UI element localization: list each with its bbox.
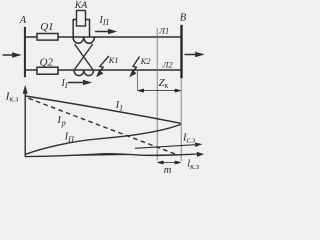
incoming arrow	[3, 53, 20, 57]
bus A	[24, 27, 26, 78]
zone boundary vertical line	[156, 28, 158, 161]
relay wire left	[73, 20, 76, 38]
dead zone m dimension	[158, 161, 181, 164]
arrow I_II	[95, 30, 115, 34]
relay wire right	[86, 20, 90, 38]
Z_k dimension arrow	[138, 89, 181, 92]
graph horizontal axis	[25, 153, 202, 157]
crossed wires	[75, 44, 93, 70]
svg-text:КА: КА	[74, 0, 89, 11]
wire line L1	[26, 36, 181, 38]
curve I_p dashed	[29, 98, 178, 155]
svg-text:Л2: Л2	[162, 60, 174, 70]
CT winding on L1	[73, 37, 94, 43]
curve I_1	[26, 96, 181, 123]
outgoing arrow	[185, 53, 203, 57]
svg-text:B: B	[180, 13, 187, 24]
arrow I_I	[68, 81, 90, 85]
graph vertical axis	[24, 87, 27, 157]
svg-text:A: A	[19, 15, 27, 26]
fault K2 drop line	[137, 71, 139, 92]
fault K2 lightning	[132, 57, 140, 74]
pickup level line I_s.z	[135, 143, 201, 148]
svg-text:К1: К1	[108, 55, 119, 65]
svg-text:Q2: Q2	[40, 56, 54, 68]
bus B extension vertical line	[180, 78, 182, 161]
relay KA coil	[77, 11, 86, 27]
CT winding on L2	[74, 70, 94, 76]
wire line L2	[26, 69, 181, 71]
bus B	[180, 25, 182, 78]
svg-text:m: m	[164, 165, 172, 174]
svg-text:К2: К2	[140, 56, 152, 66]
curve I_II	[26, 124, 181, 154]
breaker Q1	[37, 34, 58, 41]
svg-text:Q1: Q1	[40, 21, 53, 33]
breaker Q2	[37, 67, 58, 74]
fault K1 lightning	[99, 56, 109, 73]
svg-text:Л1: Л1	[158, 25, 169, 35]
